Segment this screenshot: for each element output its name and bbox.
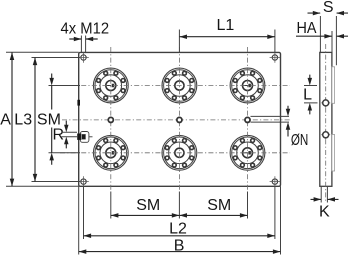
- black edge mark on left edge: [77, 100, 80, 106]
- dimension B: [79, 238, 281, 255]
- dimension 4x M12: [61, 20, 110, 52]
- svg-text:K: K: [319, 204, 330, 221]
- dimension L2: [84, 220, 275, 238]
- side view boss upper: [332, 67, 335, 104]
- corner hole M12 bottom-left: [78, 176, 89, 187]
- svg-text:SM: SM: [136, 197, 160, 214]
- dimension K: [311, 187, 339, 221]
- corner hole M12 top-left: [78, 52, 89, 63]
- dimension L1: [179, 17, 275, 52]
- bearing flange bottom-middle: [162, 135, 197, 170]
- corner hole M12 top-right: [270, 52, 281, 63]
- dimension R: [53, 121, 77, 149]
- svg-text:L2: L2: [169, 220, 187, 237]
- bearing flange bottom-left: [93, 135, 128, 170]
- side view boss lower: [332, 135, 335, 172]
- svg-text:L3: L3: [14, 111, 32, 128]
- column centerline right: [247, 47, 249, 192]
- column centerline middle: [178, 47, 180, 192]
- dimension SM bottom right: [179, 197, 247, 217]
- svg-text:HA: HA: [297, 20, 317, 37]
- column centerline left: [110, 47, 112, 192]
- svg-text:SM: SM: [207, 197, 231, 214]
- row 1 centerline: [60, 85, 290, 87]
- svg-text:L1: L1: [217, 17, 235, 34]
- dimension SM bottom left: [111, 197, 180, 217]
- dimension A: [0, 52, 78, 186]
- dimension S: [308, 0, 348, 65]
- bearing flange top-left: [93, 68, 128, 103]
- dimension L (side): [303, 75, 317, 115]
- svg-text:S: S: [323, 0, 334, 16]
- bearing flange top-right: [230, 68, 265, 103]
- corner hole M12 bottom-right: [270, 176, 281, 187]
- side view hole lower: [321, 130, 330, 139]
- svg-text:L: L: [303, 87, 312, 104]
- side view hole upper: [321, 98, 330, 107]
- dimension SM vertical: [37, 74, 80, 165]
- middle horizontal centerline: [62, 119, 290, 121]
- dimension HA: [296, 20, 348, 52]
- small hole N middle: [177, 117, 182, 122]
- small hole N left: [108, 117, 113, 122]
- bottom extension lines: [78, 186, 80, 254]
- bearing flange top-middle: [162, 68, 197, 103]
- svg-text:R: R: [53, 126, 65, 143]
- side view plate: [320, 52, 332, 186]
- small hole N right: [245, 117, 250, 122]
- svg-text:ØN: ØN: [291, 132, 309, 149]
- svg-text:4x M12: 4x M12: [61, 20, 110, 37]
- side view centerline: [325, 44, 327, 203]
- dimension L3: [14, 58, 80, 182]
- svg-text:A: A: [0, 111, 11, 128]
- bearing flange bottom-right: [230, 135, 265, 170]
- drain fitting on left edge: [77, 132, 92, 143]
- dimension ØN: [251, 106, 309, 149]
- mounting plate outline (front view): [79, 52, 281, 186]
- row 2 centerline: [60, 152, 290, 154]
